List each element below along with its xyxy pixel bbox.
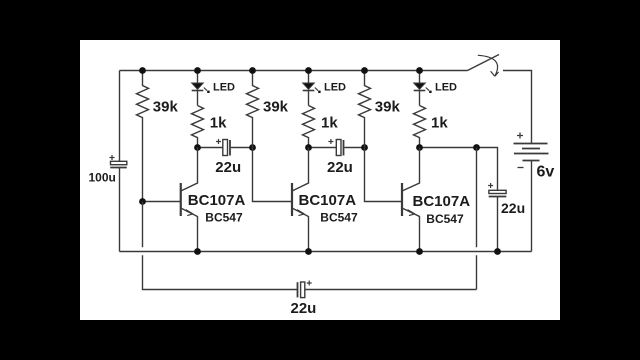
battery B1 6v bbox=[514, 144, 549, 252]
node Q1 collector junction bbox=[194, 144, 201, 151]
wire feedback left drop (crossover ground) bbox=[143, 202, 298, 290]
wire Q3 collector node to C3 bbox=[420, 148, 498, 191]
svg-text:100u: 100u bbox=[89, 171, 116, 185]
part label Q3 BC547 bbox=[426, 212, 464, 226]
svg-text:BC547: BC547 bbox=[320, 210, 358, 224]
node feedback tap bbox=[473, 144, 480, 151]
resistor R4 1k bbox=[303, 106, 315, 148]
wire R3 to Q2 base bbox=[253, 148, 293, 202]
svg-text:BC107A: BC107A bbox=[299, 192, 357, 209]
svg-text:BC107A: BC107A bbox=[413, 193, 471, 210]
label LED D3 bbox=[435, 82, 457, 94]
value label R1 39k bbox=[153, 99, 179, 116]
wire feedback right rise (crossover ground) bbox=[476, 148, 478, 290]
value label R6 1k bbox=[431, 114, 448, 131]
node C3 / ground rail bbox=[494, 248, 501, 255]
wire left vertical (upper, to 100u) bbox=[119, 71, 121, 162]
svg-text:39k: 39k bbox=[375, 99, 401, 116]
label LED D2 bbox=[324, 82, 346, 94]
svg-text:22u: 22u bbox=[501, 200, 525, 216]
wire switch to battery top bbox=[503, 71, 532, 144]
plus sign C2 bbox=[328, 139, 333, 144]
part label Q2 BC547 bbox=[320, 210, 358, 224]
resistor R3 39k bbox=[247, 71, 259, 148]
switch S1 bbox=[468, 55, 500, 77]
node Q1 emitter / ground bbox=[194, 248, 201, 255]
wire ground rail bbox=[120, 251, 532, 253]
node C1 right / R3 bottom bbox=[249, 144, 256, 151]
part label Q3 BC107A bbox=[413, 193, 471, 210]
value label R5 39k bbox=[375, 99, 401, 116]
value label R2 1k bbox=[210, 114, 227, 131]
node top rail / R5 bbox=[361, 67, 368, 74]
node Q2 collector junction bbox=[305, 144, 312, 151]
svg-text:1k: 1k bbox=[210, 114, 227, 131]
svg-text:1k: 1k bbox=[321, 114, 338, 131]
LED D2 bbox=[303, 71, 321, 106]
LED D1 bbox=[192, 71, 210, 106]
value label 100u bbox=[89, 171, 116, 185]
node top rail / D1 bbox=[194, 67, 201, 74]
transistor Q3 BC107A bbox=[402, 148, 420, 252]
capacitor C2 22u bbox=[336, 140, 364, 156]
wire top rail bbox=[120, 70, 468, 72]
svg-text:BC547: BC547 bbox=[205, 210, 243, 224]
node top rail / R1 bbox=[139, 67, 146, 74]
minus sign battery bbox=[518, 167, 524, 169]
value label C1 22u bbox=[215, 159, 241, 176]
value label C3 22u bbox=[501, 200, 525, 216]
node Q2 emitter / ground bbox=[305, 248, 312, 255]
capacitor C3 22u bbox=[489, 190, 507, 251]
node top rail / R3 bbox=[249, 67, 256, 74]
plus sign C1 bbox=[216, 139, 221, 144]
value label R4 1k bbox=[321, 114, 338, 131]
svg-text:39k: 39k bbox=[263, 99, 289, 116]
node top rail / D3 bbox=[416, 67, 423, 74]
LED D3 bbox=[414, 71, 432, 106]
resistor R2 1k bbox=[192, 106, 204, 148]
wire R5 to Q3 base bbox=[365, 148, 403, 202]
transistor Q2 BC107A bbox=[292, 148, 309, 252]
plus sign C3 bbox=[488, 183, 493, 188]
plus sign 100u bbox=[110, 155, 115, 160]
node Q3 collector junction bbox=[416, 144, 423, 151]
capacitor C4 22u bbox=[298, 282, 477, 298]
svg-text:22u: 22u bbox=[291, 300, 317, 317]
transistor Q1 BC107A bbox=[143, 148, 198, 252]
plus sign C4 bbox=[307, 281, 312, 286]
resistor R1 39k bbox=[137, 71, 149, 202]
svg-text:LED: LED bbox=[324, 82, 346, 94]
svg-text:BC547: BC547 bbox=[426, 212, 464, 226]
part label Q1 BC107A bbox=[188, 192, 246, 209]
wire node1 to C1 bbox=[198, 147, 223, 149]
plus sign battery bbox=[517, 133, 523, 139]
svg-text:BC107A: BC107A bbox=[188, 192, 246, 209]
value label C2 22u bbox=[327, 159, 353, 176]
capacitor C1 22u bbox=[223, 140, 253, 156]
part label Q1 BC547 bbox=[205, 210, 243, 224]
svg-text:39k: 39k bbox=[153, 99, 179, 116]
resistor R5 39k bbox=[359, 71, 371, 148]
svg-text:22u: 22u bbox=[327, 159, 353, 176]
capacitor C5 100u bbox=[110, 161, 127, 167]
node C2 right / R5 bottom bbox=[361, 144, 368, 151]
value label battery 6v bbox=[537, 163, 555, 180]
value label C4 22u bbox=[291, 300, 317, 317]
wire node2 to C2 bbox=[309, 147, 337, 149]
node Q3 emitter / ground bbox=[416, 248, 423, 255]
node Q1 base junction bbox=[139, 198, 146, 205]
node top rail / D2 bbox=[305, 67, 312, 74]
label LED D1 bbox=[213, 82, 235, 94]
svg-text:22u: 22u bbox=[215, 159, 241, 176]
value label R3 39k bbox=[263, 99, 289, 116]
svg-text:1k: 1k bbox=[431, 114, 448, 131]
svg-text:LED: LED bbox=[213, 82, 235, 94]
svg-text:6v: 6v bbox=[537, 163, 555, 180]
resistor R6 1k bbox=[414, 106, 426, 148]
part label Q2 BC107A bbox=[299, 192, 357, 209]
wire left vertical (lower, 100u to ground rail) bbox=[119, 168, 121, 252]
svg-text:LED: LED bbox=[435, 82, 457, 94]
